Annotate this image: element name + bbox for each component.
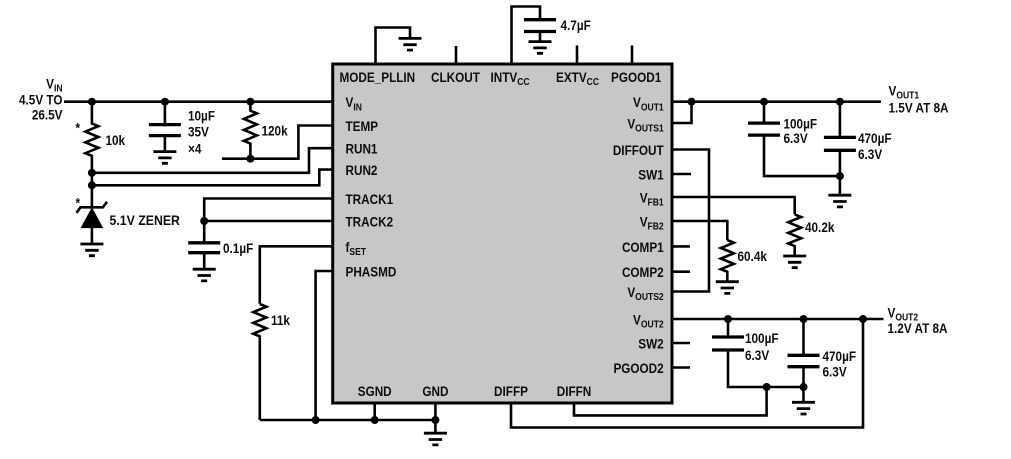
svg-text:SW2: SW2 <box>638 336 663 352</box>
IC U1 bottom pin labels <box>358 383 592 399</box>
wire TRACK1 <box>204 199 333 222</box>
wire RUN1 <box>88 148 333 177</box>
value label 470uF 6.3V <box>858 130 892 162</box>
capacitor C2 0.1uF <box>188 221 220 269</box>
svg-text:TRACK2: TRACK2 <box>346 214 394 230</box>
wire bottom ground rail <box>260 416 436 424</box>
wire VFB1 <box>672 197 795 214</box>
ground below R5 <box>716 282 739 294</box>
svg-text:10k: 10k <box>106 132 126 148</box>
svg-text:6.3V: 6.3V <box>858 146 883 162</box>
svg-text:11k: 11k <box>271 312 291 328</box>
wire COMP1 stub <box>672 245 690 248</box>
value label 100uF 6.3V <box>784 116 818 147</box>
svg-text:RUN1: RUN1 <box>346 141 378 157</box>
zener diode D1 5.1V <box>77 202 108 244</box>
IC U1 top pin labels <box>340 69 662 87</box>
wire fSET <box>260 246 333 304</box>
svg-text:SGND: SGND <box>358 383 392 399</box>
svg-text:CLKOUT: CLKOUT <box>431 69 480 85</box>
wire DIFFN <box>574 383 771 415</box>
svg-text:1.2V AT 8A: 1.2V AT 8A <box>888 320 948 336</box>
ground below C5 <box>828 195 851 207</box>
wire COMP2 stub <box>672 270 690 273</box>
IC U1 body <box>333 64 672 403</box>
svg-text:120k: 120k <box>262 123 289 139</box>
IC U1 left pin labels <box>346 94 397 280</box>
svg-text:PHASMD: PHASMD <box>346 264 397 280</box>
svg-text:40.2k: 40.2k <box>805 219 835 235</box>
ground below D1 <box>80 244 103 256</box>
ground below GND pin <box>424 433 447 445</box>
ground below C1 <box>153 152 176 164</box>
svg-text:PGOOD2: PGOOD2 <box>613 360 663 376</box>
wire PHASMD <box>312 271 333 424</box>
ground above MODE_PLLIN <box>399 38 422 50</box>
wire SW2 stub <box>672 342 690 345</box>
svg-text:6.3V: 6.3V <box>784 130 809 146</box>
wire DIFFOUT to VOUTS2 <box>672 150 709 292</box>
svg-text:5.1V ZENER: 5.1V ZENER <box>110 212 181 228</box>
value label 100uF 6.3V <box>745 330 779 363</box>
wire TEMP <box>222 126 333 163</box>
svg-text:4.7µF: 4.7µF <box>561 17 591 33</box>
capacitor C6 100uF <box>712 319 804 387</box>
resistor R2 120k <box>244 102 257 159</box>
svg-text:1.5V AT 8A: 1.5V AT 8A <box>889 99 949 115</box>
svg-text:6.3V: 6.3V <box>745 347 770 363</box>
resistor R4 40.2k <box>788 214 801 256</box>
node VOUT2 label <box>888 305 948 337</box>
wire CLKOUT stub <box>455 46 458 64</box>
resistor R5 60.4k <box>721 240 734 282</box>
wire VOUTS1 <box>672 102 692 123</box>
value label 470uF 6.3V <box>823 348 857 380</box>
IC U1 right pin labels <box>613 94 664 376</box>
wire VFB2 <box>672 221 727 240</box>
wire VIN rail <box>64 98 333 106</box>
svg-text:470µF: 470µF <box>858 130 892 146</box>
svg-text:GND: GND <box>422 383 448 399</box>
wire EXTVCC stub <box>576 46 579 65</box>
ground below C2 <box>193 269 216 281</box>
wire PGOOD1 stub <box>631 46 634 65</box>
svg-text:0.1µF: 0.1µF <box>223 240 253 256</box>
svg-text:35V: 35V <box>188 124 209 140</box>
wire VOUT2 rail <box>672 315 884 323</box>
wire PGOOD2 stub <box>672 366 690 369</box>
wire RUN2 <box>88 170 333 190</box>
wire MODE_PLLIN to ground <box>376 28 411 65</box>
capacitor C7 470uF <box>788 319 820 402</box>
svg-text:100µF: 100µF <box>745 330 779 346</box>
svg-text:×4: ×4 <box>188 141 202 157</box>
capacitor C1 10uF <box>149 102 181 152</box>
svg-text:DIFFP: DIFFP <box>494 383 528 399</box>
capacitor C4 100uF <box>748 102 840 176</box>
svg-text:TEMP: TEMP <box>346 118 379 134</box>
node VIN label <box>19 76 63 123</box>
svg-text:60.4k: 60.4k <box>738 248 768 264</box>
svg-text:COMP2: COMP2 <box>622 264 664 280</box>
svg-text:26.5V: 26.5V <box>32 106 63 122</box>
svg-text:SW1: SW1 <box>638 167 663 183</box>
wire SW1 stub <box>672 173 691 176</box>
node VOUT1 label <box>889 83 949 116</box>
ground below R4 <box>783 256 806 268</box>
svg-text:6.3V: 6.3V <box>823 363 848 379</box>
svg-text:4.5V TO: 4.5V TO <box>19 92 63 108</box>
wire VOUT1 rail <box>672 98 881 106</box>
svg-text:TRACK1: TRACK1 <box>346 191 394 207</box>
wire TRACK2 <box>200 217 333 225</box>
wire SGND stub <box>373 403 376 420</box>
wire DIFFP <box>511 315 867 428</box>
ground below C3 <box>529 42 552 54</box>
svg-text:PGOOD1: PGOOD1 <box>611 69 661 85</box>
resistor R1 10k <box>85 102 98 208</box>
wire INTVCC to C3 <box>512 7 541 65</box>
value label 10uF 35V x4 <box>188 108 215 157</box>
svg-text:COMP1: COMP1 <box>622 239 664 255</box>
capacitor C3 4.7uF <box>524 20 556 42</box>
svg-text:10µF: 10µF <box>188 108 215 124</box>
wire GND stub <box>431 403 439 433</box>
svg-text:DIFFOUT: DIFFOUT <box>613 142 664 158</box>
resistor R3 11k <box>253 304 266 420</box>
svg-text:DIFFN: DIFFN <box>557 383 592 399</box>
ground below C7 <box>792 402 815 414</box>
capacitor C5 470uF <box>824 102 856 196</box>
svg-text:RUN2: RUN2 <box>346 162 378 178</box>
svg-text:470µF: 470µF <box>823 348 857 364</box>
svg-text:MODE_PLLIN: MODE_PLLIN <box>340 69 416 85</box>
